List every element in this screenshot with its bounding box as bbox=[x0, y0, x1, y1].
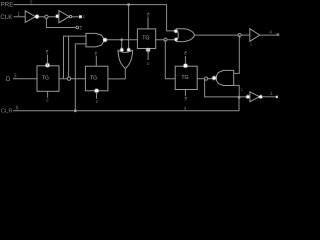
buffer U9 bbox=[250, 92, 260, 102]
wire U9 output bbox=[262, 96, 275, 98]
node U9 output dot bbox=[258, 94, 263, 99]
wire tap to junction circle bbox=[68, 36, 70, 77]
node open junction circle bbox=[45, 15, 48, 18]
TG4 bottom control label bbox=[147, 61, 150, 66]
wire TG3 right pin bbox=[197, 78, 212, 80]
transmission gate TG2 box bbox=[85, 66, 108, 91]
TG2 bottom control stub bbox=[96, 92, 98, 99]
TG3 top pin dot bbox=[183, 63, 189, 69]
TG1 top pin dot bbox=[45, 62, 51, 68]
TG3 top control stub bbox=[184, 56, 186, 64]
wire PRE down to U5 input bbox=[128, 5, 130, 50]
port PRE label bbox=[1, 2, 14, 9]
TG2 bottom control label bbox=[96, 99, 99, 104]
wire after U1 bbox=[39, 16, 45, 18]
pin number 2 bbox=[30, 0, 33, 6]
wire D input bbox=[13, 78, 37, 80]
port Q square bbox=[276, 33, 279, 36]
svg-text:CLK: CLK bbox=[0, 14, 13, 21]
transmission gate TG3 box bbox=[175, 66, 197, 89]
wire U8 bottom input feedback bbox=[234, 85, 240, 97]
wire Qbar from junction circle down and right bbox=[205, 79, 250, 97]
inverter U1 bubble bbox=[34, 14, 39, 19]
inverter U2 bbox=[59, 11, 69, 23]
pin number 4 bbox=[269, 29, 272, 35]
wire PRE horizontal bbox=[14, 4, 167, 6]
wire tick under TG3 bbox=[184, 107, 186, 111]
net label c bbox=[83, 14, 86, 19]
svg-text:TG: TG bbox=[181, 75, 188, 81]
node U2 input dot bbox=[55, 14, 60, 19]
port cbar circle bbox=[76, 26, 79, 29]
node CLR junction dot bbox=[74, 109, 77, 112]
wire U7 output bbox=[260, 34, 277, 36]
net label cbar bbox=[80, 26, 83, 31]
pin number 6 bbox=[16, 105, 19, 111]
svg-text:PRE: PRE bbox=[1, 2, 14, 9]
wire TG1 right to TG2 left bbox=[59, 78, 85, 80]
nand U3 bubble bbox=[102, 37, 107, 42]
wire CLR bottom rail bbox=[13, 97, 239, 111]
nand U8 bubble bbox=[211, 75, 216, 80]
port D label bbox=[6, 76, 11, 83]
node junction circle on Q wire bbox=[238, 34, 241, 37]
wire U2 output bbox=[72, 16, 79, 18]
wire feedback down to TG3 left pin bbox=[165, 40, 175, 79]
svg-text:CLR: CLR bbox=[1, 108, 13, 114]
port Qbar square bbox=[276, 96, 278, 98]
wire U8 top input feedback from Q bbox=[234, 35, 240, 73]
wire TG4 right pin bbox=[156, 39, 176, 41]
port CLR label bbox=[1, 108, 13, 114]
node OR3 bottom input dot bbox=[174, 37, 179, 42]
node junction dot on Qbar wire bbox=[238, 96, 241, 99]
node U3 output junction bbox=[120, 38, 123, 41]
node junction circle on NAND4 output bbox=[205, 77, 208, 80]
node OR3 top input dot bbox=[173, 29, 178, 34]
wire U5 output to TG2 right pin bbox=[108, 69, 125, 79]
TG1 bottom control label bbox=[46, 98, 49, 103]
pin number 1 under U8 bbox=[241, 87, 244, 92]
svg-text:TG: TG bbox=[142, 36, 149, 42]
wire PRE corner to OR gate top input bbox=[167, 5, 176, 31]
TG4 bottom pin dot bbox=[145, 47, 150, 52]
pin number 1 bbox=[270, 91, 273, 97]
svg-text:D: D bbox=[6, 76, 11, 83]
TG1 top control stub bbox=[46, 55, 48, 66]
svg-text:TG: TG bbox=[90, 76, 97, 82]
wire NAND U3 top input bbox=[64, 36, 87, 79]
TG2 top control label bbox=[95, 51, 98, 56]
TG1 top control label bbox=[46, 50, 49, 55]
TG3 bottom control stub bbox=[184, 90, 186, 97]
TG3 top control label bbox=[184, 51, 187, 56]
nand U8 pointing left bbox=[216, 70, 233, 85]
TG2 bottom pin dot bbox=[94, 88, 100, 94]
pin number 3 bbox=[14, 74, 17, 80]
TG1 bottom control stub bbox=[47, 91, 49, 97]
pin number 1 bbox=[17, 12, 20, 18]
wire U3 output bbox=[107, 39, 137, 41]
TG4 bottom control stub bbox=[147, 49, 149, 61]
TG3 bottom control label bbox=[185, 97, 188, 102]
inverter U2 bubble bbox=[69, 15, 71, 17]
wire junction down to U5 input bbox=[121, 40, 123, 50]
svg-text:4: 4 bbox=[269, 29, 272, 35]
node junction circle master node bbox=[67, 77, 70, 80]
wire cbar branch bbox=[46, 19, 76, 28]
nand U3 bbox=[86, 33, 104, 47]
or gate U5 pointing down bbox=[118, 50, 133, 68]
pin number 1 under buffer input bbox=[250, 41, 253, 46]
buffer U7 bbox=[250, 29, 260, 42]
svg-text:TG: TG bbox=[42, 76, 49, 82]
wire U6 output (Q internal) bbox=[195, 34, 250, 36]
wire to U2 bbox=[48, 16, 56, 18]
wire NAND U3 bottom input from CLR bbox=[75, 44, 86, 111]
svg-text:1: 1 bbox=[270, 91, 273, 97]
transmission gate TG1 box bbox=[37, 66, 59, 92]
node junction circle on TG4 output bbox=[164, 38, 167, 41]
port c square bbox=[79, 15, 82, 18]
TG4 top control label bbox=[147, 13, 150, 18]
wire CLK bbox=[14, 16, 26, 18]
node U5 left input dot bbox=[119, 47, 124, 52]
TG2 top control stub bbox=[95, 56, 97, 66]
svg-text:2: 2 bbox=[30, 0, 33, 6]
node U5 right input dot bbox=[126, 47, 131, 52]
inverter U1 bbox=[25, 11, 35, 23]
node buffer U9 input dot bbox=[245, 94, 250, 99]
or gate U6 bbox=[177, 29, 195, 42]
TG4 top control stub bbox=[147, 17, 149, 29]
transmission gate TG4 box (upper) bbox=[137, 29, 155, 49]
node PRE junction bbox=[127, 3, 130, 6]
port CLK label bbox=[0, 14, 13, 21]
